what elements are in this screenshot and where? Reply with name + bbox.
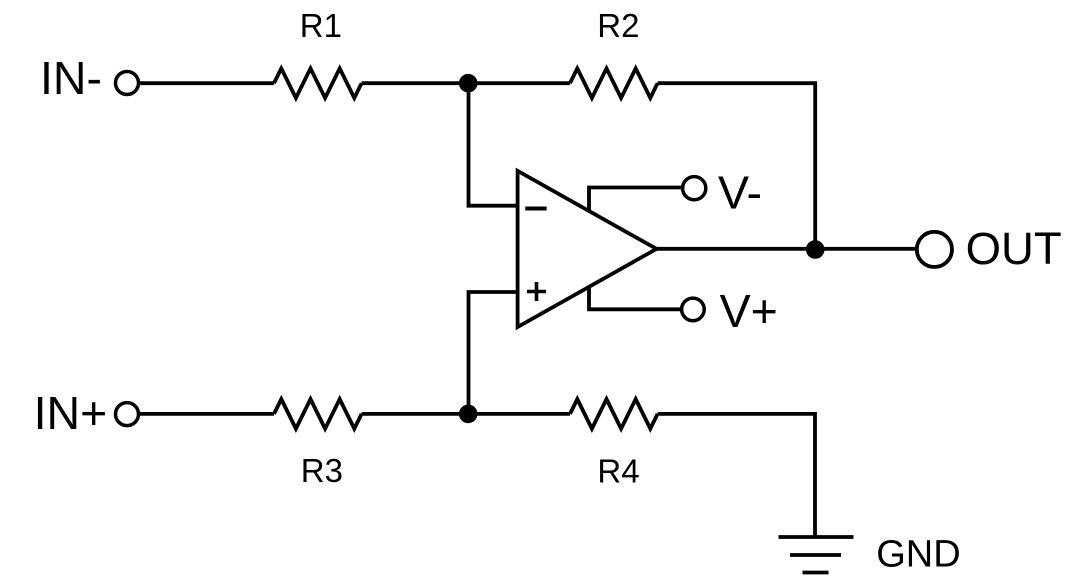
node IN+ terminal	[116, 403, 139, 426]
node junction C (R3/R4/noninverting)	[459, 405, 478, 424]
node IN- terminal	[116, 72, 139, 95]
wire R4 to ground	[658, 414, 815, 537]
wire V+ pin	[589, 288, 682, 310]
node junction A (R1/R2/inverting)	[459, 74, 478, 93]
wire inverting input vertical	[469, 83, 518, 206]
ground	[779, 535, 854, 539]
resistor R1	[274, 68, 362, 98]
node OUT terminal	[917, 232, 952, 267]
node V- terminal	[683, 177, 706, 200]
svg-text:V-: V-	[718, 167, 762, 219]
svg-text:IN+: IN+	[34, 387, 108, 439]
svg-text:R4: R4	[597, 452, 639, 489]
resistor R2	[570, 68, 658, 98]
wire R3 to R4	[362, 412, 570, 416]
svg-text:V+: V+	[720, 285, 778, 337]
resistor R3	[274, 399, 362, 429]
svg-text:GND: GND	[876, 533, 960, 575]
wire R1 to R2	[362, 81, 570, 85]
wire output	[656, 247, 917, 251]
wire V- pin	[589, 188, 683, 212]
wire noninverting input vertical	[469, 292, 518, 414]
node V+ terminal	[682, 298, 705, 321]
wire IN+ to R3	[139, 412, 275, 416]
op-amp plus sign	[527, 282, 546, 301]
op-amp U1	[518, 171, 657, 327]
op-amp minus sign	[525, 207, 546, 211]
node junction B (output/feedback)	[806, 240, 825, 259]
wire IN- to R1	[139, 81, 275, 85]
svg-text:OUT: OUT	[966, 223, 1062, 274]
svg-text:R1: R1	[300, 7, 342, 44]
svg-text:R3: R3	[301, 452, 343, 489]
wire R2 to feedback corner	[658, 83, 816, 249]
svg-text:R2: R2	[597, 7, 639, 44]
svg-text:IN-: IN-	[40, 52, 102, 104]
resistor R4	[570, 399, 658, 429]
